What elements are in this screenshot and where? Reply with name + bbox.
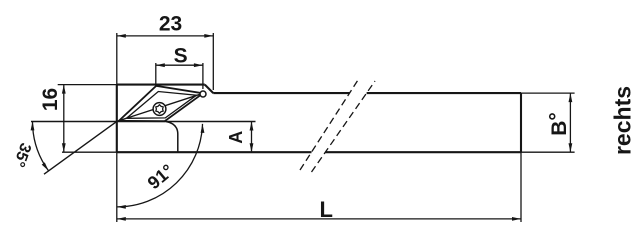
dim B: bottom arrow bbox=[569, 143, 573, 152]
break line left (dashed) bbox=[300, 80, 358, 170]
insert outer outline bbox=[119, 86, 203, 121]
wire: shank bottom edge right of break bbox=[325, 151, 521, 153]
dim L: right arrow bbox=[512, 217, 521, 221]
wire: pocket relief curve bbox=[166, 122, 178, 153]
dim S: dimension line bbox=[156, 64, 203, 66]
dim 16: bottom extension line bbox=[62, 151, 117, 153]
wire: head chamfer to shank top bbox=[205, 85, 214, 94]
dim 23: right arrow bbox=[204, 34, 213, 38]
dim 23: right extension line bbox=[212, 33, 214, 90]
wire: shank top edge left of break bbox=[213, 92, 349, 94]
node: insert seat line through corner bbox=[31, 121, 256, 123]
insert inner outline bbox=[127, 92, 197, 119]
dim S: left arrow bbox=[156, 63, 165, 67]
dim 16: top extension line bbox=[58, 84, 117, 86]
svg-text:S: S bbox=[174, 45, 188, 68]
dim 16: top arrow bbox=[62, 85, 66, 94]
angle 35: top arrow bbox=[31, 121, 35, 130]
dim S: right arrow bbox=[194, 63, 203, 67]
angle 91: arc bbox=[117, 124, 203, 207]
wire: tool head top edge bbox=[117, 84, 205, 86]
svg-text:L: L bbox=[319, 197, 332, 222]
screw body circle bbox=[153, 103, 166, 116]
wire: 35-degree construction ray through insert to nose bbox=[117, 93, 203, 121]
dim S: right extension line bbox=[202, 63, 204, 89]
angle 35: arc bbox=[33, 121, 49, 170]
wire: tool left edge bbox=[116, 85, 118, 153]
svg-text:16: 16 bbox=[39, 88, 62, 111]
screw torx star bbox=[156, 105, 163, 114]
angle 35: bottom arrow bbox=[42, 162, 49, 170]
dim L: right extension line bbox=[520, 152, 522, 222]
angle 91: top arrow bbox=[201, 124, 205, 133]
nose radius circle bbox=[200, 91, 206, 97]
dim B: dimension line bbox=[569, 93, 571, 152]
dim A: dimension line bbox=[251, 122, 253, 153]
dim 16: dimension line bbox=[63, 85, 65, 153]
svg-text:A: A bbox=[226, 131, 246, 144]
dim 23: left arrow bbox=[117, 34, 126, 38]
wire: shank bottom edge left of break bbox=[117, 151, 312, 153]
svg-text:rechts: rechts bbox=[610, 86, 636, 155]
angle 91: bottom arrow bbox=[117, 205, 126, 209]
dim A: top arrow bbox=[250, 122, 254, 131]
svg-text:23: 23 bbox=[159, 13, 182, 36]
dim B: bottom extension line bbox=[521, 151, 575, 153]
node: left vertical extension line (tool edge extended) bbox=[116, 33, 118, 222]
dim L: dimension line bbox=[117, 218, 521, 220]
dim S: left extension line bbox=[155, 63, 157, 87]
dim B: top arrow bbox=[569, 93, 573, 102]
wire: 35-degree construction ray lower-left bbox=[44, 121, 117, 174]
dim L: left arrow bbox=[117, 217, 126, 221]
dim A: bottom arrow bbox=[250, 143, 254, 152]
dim B: top extension line bbox=[521, 92, 575, 94]
wire: shank right edge bbox=[520, 93, 522, 152]
break line right (dashed) bbox=[312, 81, 376, 172]
wire: shank top edge right of break bbox=[367, 92, 521, 94]
dim 23: dimension line bbox=[117, 35, 214, 37]
dim 16: bottom arrow bbox=[62, 143, 66, 152]
svg-text:B°: B° bbox=[546, 112, 571, 136]
